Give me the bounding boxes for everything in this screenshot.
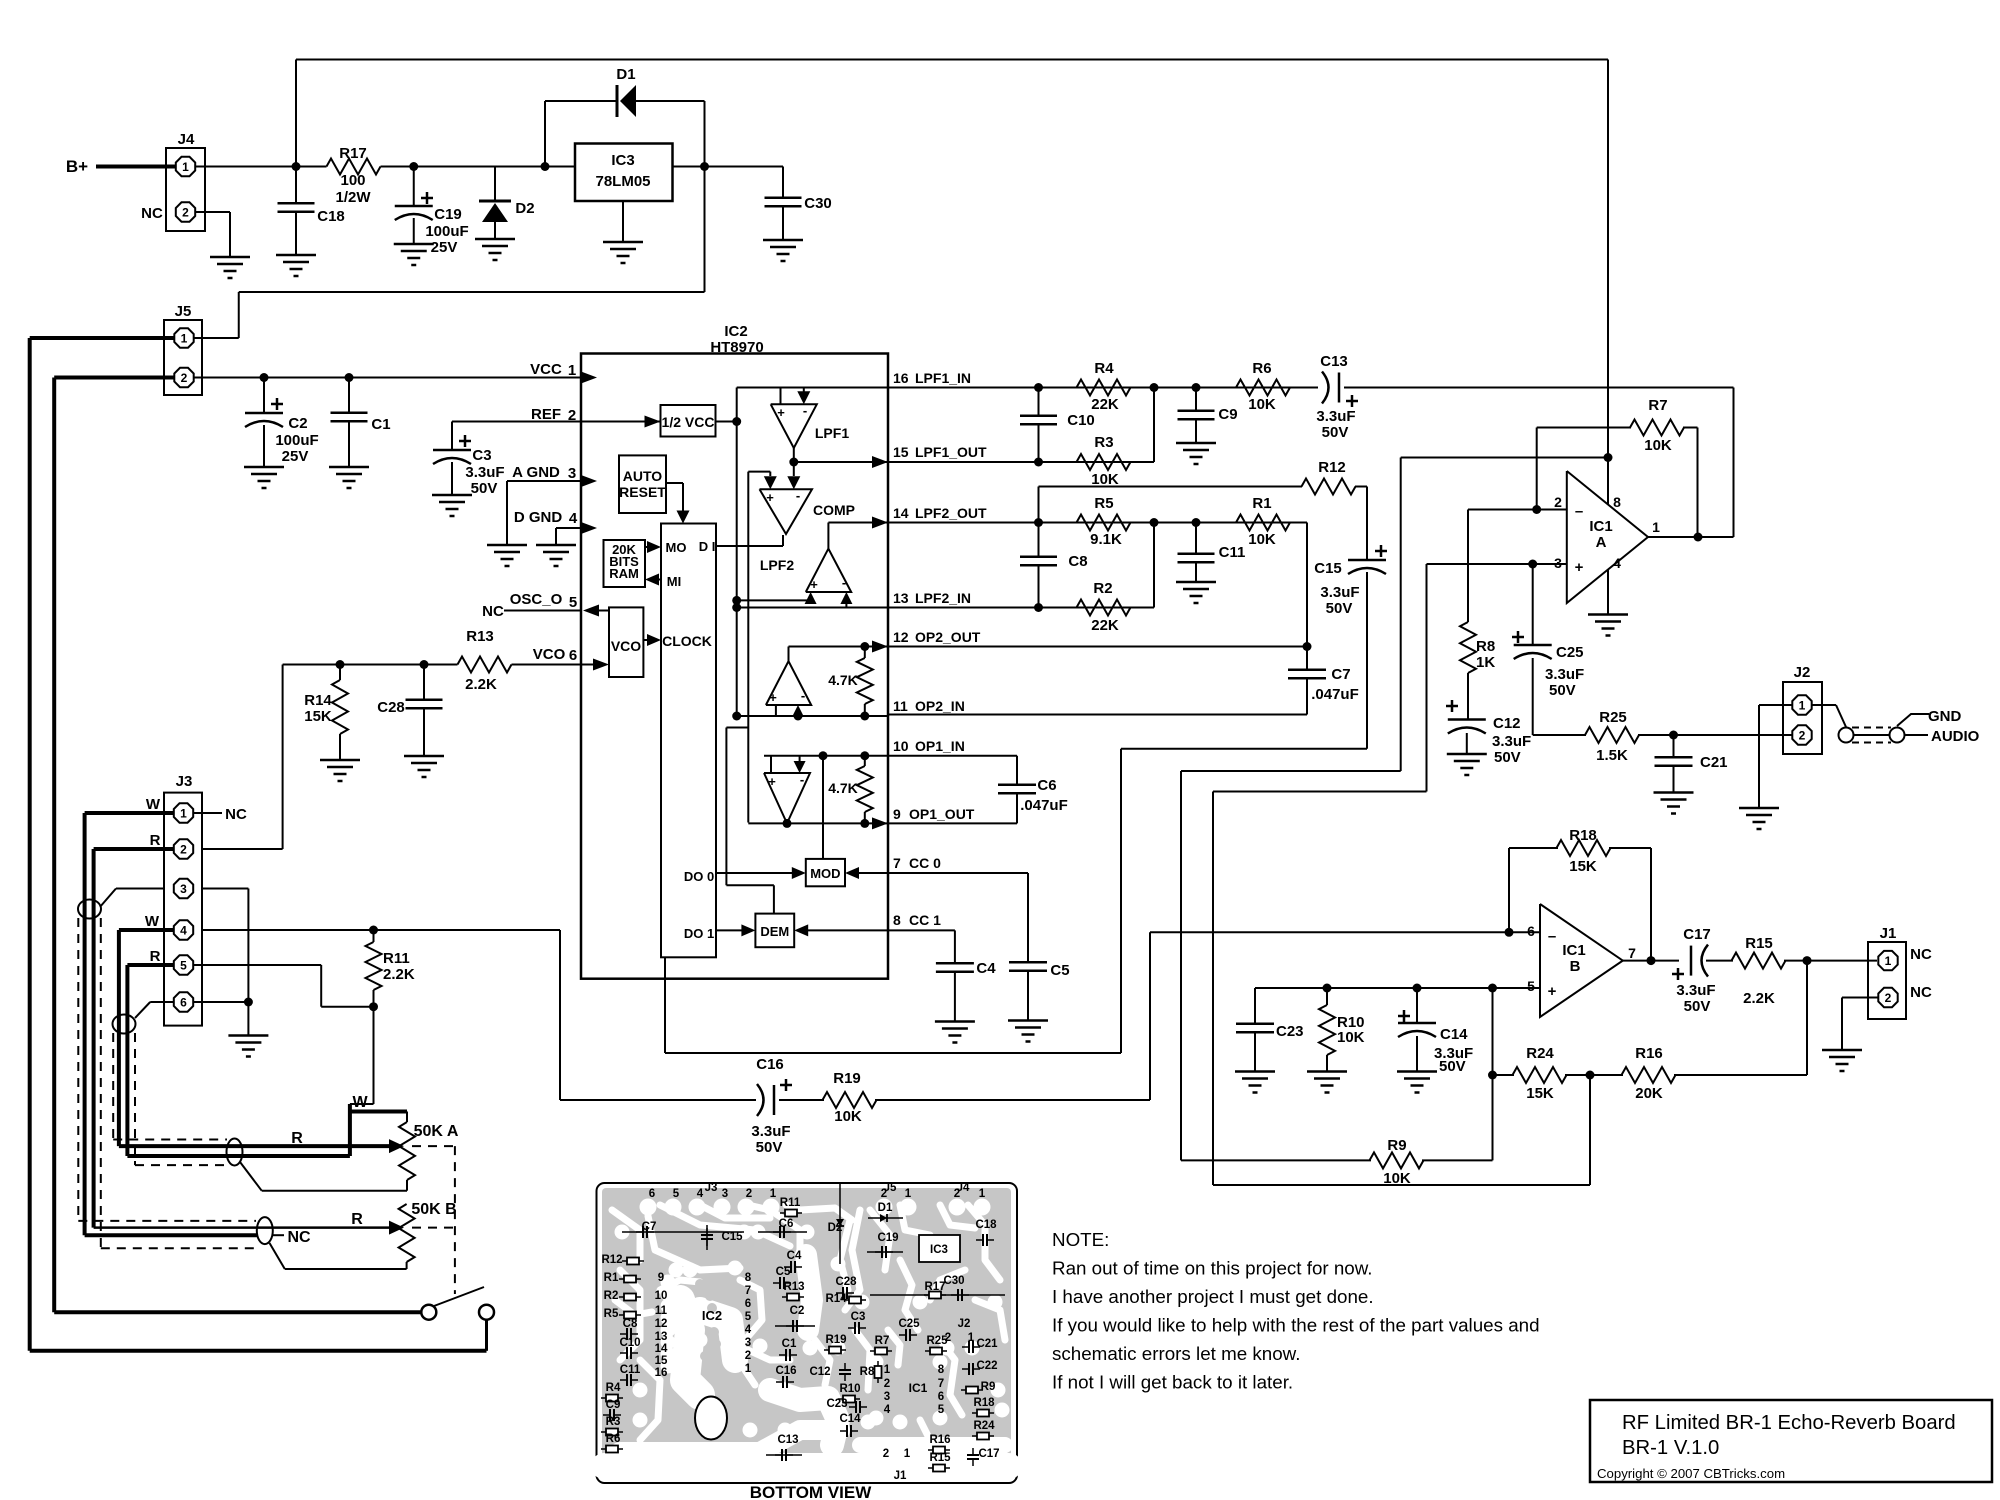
svg-text:LPF2_OUT: LPF2_OUT <box>915 505 987 521</box>
svg-text:5: 5 <box>745 1311 752 1323</box>
svg-text:J2: J2 <box>958 1318 971 1330</box>
svg-text:7: 7 <box>893 855 901 871</box>
svg-text:1: 1 <box>745 1363 752 1375</box>
svg-text:If not I will get back to it l: If not I will get back to it later. <box>1052 1372 1293 1393</box>
svg-text:4: 4 <box>569 510 578 527</box>
svg-text:IC2: IC2 <box>702 1308 722 1323</box>
svg-text:1: 1 <box>1652 519 1660 535</box>
svg-text:R1: R1 <box>1252 495 1271 512</box>
svg-text:MO: MO <box>666 540 687 555</box>
svg-text:C22: C22 <box>976 1360 997 1372</box>
svg-text:Copyright © 2007 CBTricks.com: Copyright © 2007 CBTricks.com <box>1597 1466 1785 1481</box>
svg-text:COMP: COMP <box>813 502 855 518</box>
svg-text:8: 8 <box>1613 494 1621 510</box>
svg-text:C17: C17 <box>1683 926 1711 943</box>
svg-text:22K: 22K <box>1091 396 1119 413</box>
svg-text:R: R <box>150 832 161 849</box>
svg-text:C3: C3 <box>472 447 491 464</box>
svg-text:C13: C13 <box>777 1434 798 1446</box>
svg-text:+: + <box>766 490 774 505</box>
svg-text:OP1_IN: OP1_IN <box>915 738 965 754</box>
svg-text:-: - <box>800 772 804 787</box>
svg-text:R7: R7 <box>875 1335 890 1347</box>
svg-text:R4: R4 <box>1094 360 1114 377</box>
svg-text:4: 4 <box>697 1188 704 1200</box>
svg-text:10K: 10K <box>1383 1170 1411 1187</box>
svg-text:R13: R13 <box>783 1281 804 1293</box>
svg-text:1/2 VCC: 1/2 VCC <box>662 414 715 430</box>
svg-text:3: 3 <box>180 882 187 896</box>
svg-text:2: 2 <box>181 371 188 385</box>
svg-text:3: 3 <box>568 465 576 482</box>
svg-text:If you would like to help with: If you would like to help with the rest … <box>1052 1315 1540 1336</box>
svg-text:R11: R11 <box>383 950 410 967</box>
svg-text:2: 2 <box>180 843 187 857</box>
svg-text:DO 1: DO 1 <box>684 926 714 941</box>
svg-text:DO 0: DO 0 <box>684 869 714 884</box>
svg-text:C14: C14 <box>1440 1026 1468 1043</box>
svg-text:IC1: IC1 <box>909 1381 928 1395</box>
svg-text:R6: R6 <box>606 1433 621 1445</box>
svg-text:1: 1 <box>904 1448 911 1460</box>
svg-text:VCO: VCO <box>533 646 566 663</box>
svg-text:2.2K: 2.2K <box>1743 990 1775 1007</box>
svg-text:schematic errors let me know.: schematic errors let me know. <box>1052 1343 1300 1364</box>
svg-text:-: - <box>801 688 805 703</box>
svg-text:C23: C23 <box>1276 1023 1304 1040</box>
svg-text:C28: C28 <box>377 699 405 716</box>
svg-text:LPF1_OUT: LPF1_OUT <box>915 444 987 460</box>
svg-text:+: + <box>1548 983 1557 1000</box>
svg-text:20K: 20K <box>1635 1085 1663 1102</box>
svg-text:+: + <box>769 690 777 705</box>
svg-text:C1: C1 <box>782 1338 797 1350</box>
svg-text:1: 1 <box>979 1188 986 1200</box>
svg-text:50V: 50V <box>1326 600 1353 617</box>
svg-text:14: 14 <box>893 505 909 521</box>
svg-text:3: 3 <box>745 1337 751 1349</box>
svg-text:50V: 50V <box>1322 424 1349 441</box>
svg-text:11: 11 <box>655 1305 668 1317</box>
svg-text:5: 5 <box>1527 978 1535 994</box>
svg-text:3.3uF: 3.3uF <box>1676 982 1715 999</box>
svg-text:25V: 25V <box>431 239 458 256</box>
svg-text:7: 7 <box>1628 945 1636 961</box>
svg-text:C2: C2 <box>288 415 307 432</box>
svg-text:C5: C5 <box>1050 962 1069 979</box>
svg-text:5: 5 <box>569 594 577 611</box>
svg-text:3.3uF: 3.3uF <box>1320 584 1359 601</box>
svg-text:GND: GND <box>1928 708 1962 725</box>
svg-text:C14: C14 <box>839 1413 861 1425</box>
svg-text:6: 6 <box>649 1188 655 1200</box>
svg-text:CLOCK: CLOCK <box>662 633 712 649</box>
svg-text:C8: C8 <box>1068 553 1087 570</box>
svg-text:+: + <box>810 577 818 592</box>
svg-text:3: 3 <box>722 1188 728 1200</box>
svg-text:R8: R8 <box>1476 638 1495 655</box>
svg-text:13: 13 <box>893 590 909 606</box>
svg-text:NC: NC <box>1910 946 1932 963</box>
svg-text:R7: R7 <box>1648 397 1667 414</box>
svg-text:R2: R2 <box>604 1290 619 1302</box>
svg-text:9: 9 <box>893 806 901 822</box>
svg-text:2: 2 <box>954 1188 960 1200</box>
svg-text:I have another project I must: I have another project I must get done. <box>1052 1286 1374 1307</box>
svg-text:CC 0: CC 0 <box>909 855 941 871</box>
svg-text:R4: R4 <box>606 1382 621 1394</box>
svg-text:13: 13 <box>655 1331 668 1343</box>
svg-text:2: 2 <box>883 1448 889 1460</box>
svg-text:C11: C11 <box>1219 544 1246 561</box>
svg-text:R9: R9 <box>981 1381 996 1393</box>
svg-text:NC: NC <box>141 205 163 222</box>
svg-text:4: 4 <box>1613 555 1621 571</box>
svg-text:8: 8 <box>745 1272 752 1284</box>
svg-text:C21: C21 <box>1700 754 1728 771</box>
svg-text:MOD: MOD <box>810 866 840 881</box>
svg-text:R12: R12 <box>601 1254 622 1266</box>
svg-text:NOTE:: NOTE: <box>1052 1229 1109 1250</box>
svg-text:2: 2 <box>884 1378 890 1390</box>
svg-text:IC1: IC1 <box>1562 942 1585 959</box>
svg-text:9.1K: 9.1K <box>1090 531 1122 548</box>
svg-text:100: 100 <box>340 172 365 189</box>
svg-text:J3: J3 <box>176 773 193 790</box>
svg-text:C18: C18 <box>317 208 345 225</box>
svg-text:C15: C15 <box>1314 560 1342 577</box>
svg-text:4: 4 <box>884 1404 891 1416</box>
svg-text:LPF2: LPF2 <box>760 557 794 573</box>
svg-text:50V: 50V <box>1549 682 1576 699</box>
svg-text:BOTTOM VIEW: BOTTOM VIEW <box>750 1483 872 1500</box>
svg-text:A GND: A GND <box>512 464 560 481</box>
svg-text:C5: C5 <box>776 1266 791 1278</box>
svg-text:C25: C25 <box>898 1318 920 1330</box>
svg-text:D GND: D GND <box>514 509 563 526</box>
svg-text:10K: 10K <box>834 1108 862 1125</box>
svg-text:1/2W: 1/2W <box>335 189 371 206</box>
svg-text:R17: R17 <box>339 145 367 162</box>
svg-text:1: 1 <box>884 1364 891 1376</box>
svg-text:12: 12 <box>893 629 909 645</box>
svg-text:+: + <box>768 774 776 789</box>
svg-text:RF Limited BR-1 Echo-Reverb B: RF Limited BR-1 Echo-Reverb Board <box>1622 1412 1956 1434</box>
svg-text:IC3: IC3 <box>611 152 634 169</box>
svg-text:C23: C23 <box>826 1398 847 1410</box>
svg-text:NC: NC <box>1910 984 1932 1001</box>
svg-text:C16: C16 <box>756 1056 784 1073</box>
svg-text:5: 5 <box>673 1188 680 1200</box>
svg-text:R16: R16 <box>929 1434 950 1446</box>
svg-text:NC: NC <box>225 806 247 823</box>
svg-text:10: 10 <box>655 1290 668 1302</box>
svg-text:R19: R19 <box>825 1334 846 1346</box>
svg-text:10K: 10K <box>1337 1029 1365 1046</box>
svg-text:10K: 10K <box>1091 471 1119 488</box>
svg-text:C1: C1 <box>371 416 390 433</box>
svg-text:1: 1 <box>1799 699 1806 713</box>
svg-text:CC 1: CC 1 <box>909 912 941 928</box>
svg-text:6: 6 <box>745 1298 751 1310</box>
svg-text:C3: C3 <box>851 1311 866 1323</box>
svg-text:C2: C2 <box>790 1305 805 1317</box>
svg-text:2: 2 <box>568 407 576 424</box>
svg-text:4: 4 <box>180 924 187 938</box>
svg-text:AUTO: AUTO <box>623 468 663 484</box>
svg-text:C7: C7 <box>1331 666 1350 683</box>
svg-text:2: 2 <box>182 206 189 220</box>
svg-text:2: 2 <box>746 1188 752 1200</box>
svg-text:25V: 25V <box>282 448 309 465</box>
svg-text:1: 1 <box>905 1188 912 1200</box>
svg-text:15K: 15K <box>1569 858 1597 875</box>
svg-text:4: 4 <box>745 1324 752 1336</box>
svg-text:VCO: VCO <box>611 638 641 654</box>
svg-text:16: 16 <box>893 370 909 386</box>
svg-text:16: 16 <box>655 1367 668 1379</box>
svg-text:2: 2 <box>881 1188 887 1200</box>
svg-text:50V: 50V <box>1684 998 1711 1015</box>
svg-text:1K: 1K <box>1476 654 1495 671</box>
svg-text:R10: R10 <box>839 1383 860 1395</box>
svg-text:2: 2 <box>1554 494 1562 510</box>
svg-text:4.7K: 4.7K <box>828 672 858 688</box>
svg-text:B: B <box>1570 958 1581 975</box>
svg-text:OSC_O: OSC_O <box>510 591 563 608</box>
svg-text:C4: C4 <box>787 1250 802 1262</box>
svg-text:–: – <box>1548 928 1556 945</box>
svg-text:C16: C16 <box>775 1365 796 1377</box>
svg-text:6: 6 <box>569 647 577 664</box>
svg-text:REF: REF <box>531 406 561 423</box>
svg-text:C19: C19 <box>434 206 462 223</box>
svg-text:50V: 50V <box>471 480 498 497</box>
svg-text:D1: D1 <box>878 1202 893 1214</box>
svg-text:LPF1_IN: LPF1_IN <box>915 370 971 386</box>
svg-text:12: 12 <box>655 1318 668 1330</box>
svg-text:J3: J3 <box>705 1182 718 1194</box>
svg-text:NC: NC <box>287 1229 311 1246</box>
svg-text:1: 1 <box>182 160 189 174</box>
svg-text:10K: 10K <box>1644 437 1672 454</box>
svg-text:C30: C30 <box>943 1275 964 1287</box>
svg-text:10K: 10K <box>1248 531 1276 548</box>
svg-text:R2: R2 <box>1093 580 1112 597</box>
svg-text:C12: C12 <box>1493 715 1521 732</box>
svg-text:BR-1 V.1.0: BR-1 V.1.0 <box>1622 1437 1719 1459</box>
svg-text:–: – <box>1575 503 1583 520</box>
svg-text:2.2K: 2.2K <box>465 676 497 693</box>
svg-text:W: W <box>352 1094 368 1111</box>
svg-text:7: 7 <box>938 1378 944 1390</box>
svg-text:RESET: RESET <box>619 484 666 500</box>
svg-text:78LM05: 78LM05 <box>595 173 650 190</box>
svg-text:Ran out of time on this projec: Ran out of time on this project for now. <box>1052 1258 1373 1279</box>
svg-text:IC3: IC3 <box>930 1244 948 1256</box>
svg-text:3.3uF: 3.3uF <box>751 1123 790 1140</box>
svg-text:2: 2 <box>745 1350 751 1362</box>
svg-text:50K A: 50K A <box>414 1123 459 1140</box>
svg-text:5: 5 <box>938 1404 945 1416</box>
svg-text:C28: C28 <box>835 1276 857 1288</box>
svg-text:8: 8 <box>938 1364 945 1376</box>
svg-text:R3: R3 <box>606 1416 621 1428</box>
svg-text:R18: R18 <box>973 1397 995 1409</box>
svg-text:R19: R19 <box>833 1070 861 1087</box>
svg-text:100uF: 100uF <box>425 223 468 240</box>
svg-text:R6: R6 <box>1252 360 1271 377</box>
svg-text:4.7K: 4.7K <box>828 780 858 796</box>
svg-text:C15: C15 <box>721 1231 743 1243</box>
svg-text:J5: J5 <box>175 303 192 320</box>
svg-text:10: 10 <box>893 738 909 754</box>
svg-text:IC2: IC2 <box>724 323 747 340</box>
svg-text:11: 11 <box>893 698 908 714</box>
svg-text:5: 5 <box>180 959 187 973</box>
svg-text:C9: C9 <box>1218 406 1237 423</box>
svg-text:C12: C12 <box>809 1366 830 1378</box>
svg-text:D I: D I <box>699 539 716 554</box>
svg-text:J1: J1 <box>1880 925 1897 942</box>
svg-text:C18: C18 <box>975 1219 997 1231</box>
svg-text:LPF2_IN: LPF2_IN <box>915 590 971 606</box>
svg-text:50V: 50V <box>1439 1058 1466 1075</box>
svg-text:D1: D1 <box>616 66 635 83</box>
svg-text:1: 1 <box>1885 954 1892 968</box>
svg-text:9: 9 <box>658 1272 664 1284</box>
svg-text:C6: C6 <box>1037 777 1056 794</box>
svg-text:NC: NC <box>482 603 504 620</box>
svg-text:LPF1: LPF1 <box>815 425 849 441</box>
svg-text:3.3uF: 3.3uF <box>1492 733 1531 750</box>
svg-text:R5: R5 <box>604 1308 619 1320</box>
svg-text:C4: C4 <box>976 960 996 977</box>
svg-text:15: 15 <box>655 1355 668 1367</box>
svg-text:14: 14 <box>655 1343 668 1355</box>
svg-text:C21: C21 <box>976 1338 998 1350</box>
svg-text:50V: 50V <box>1494 749 1521 766</box>
svg-text:C10: C10 <box>1067 412 1095 429</box>
svg-text:R24: R24 <box>973 1420 995 1432</box>
svg-text:J4: J4 <box>178 131 195 148</box>
svg-text:-: - <box>842 575 846 590</box>
svg-text:6: 6 <box>1527 923 1535 939</box>
svg-text:1.5K: 1.5K <box>1596 747 1628 764</box>
svg-text:R13: R13 <box>466 628 494 645</box>
svg-text:W: W <box>146 796 161 813</box>
svg-text:2: 2 <box>1799 729 1806 743</box>
svg-text:R15: R15 <box>1745 935 1773 952</box>
svg-text:R: R <box>150 948 161 965</box>
svg-text:R14: R14 <box>304 692 332 709</box>
svg-text:R16: R16 <box>1635 1045 1663 1062</box>
svg-text:R12: R12 <box>1318 459 1346 476</box>
svg-text:1: 1 <box>181 332 188 346</box>
svg-text:R11: R11 <box>780 1197 801 1209</box>
svg-text:MI: MI <box>667 574 681 589</box>
svg-text:100uF: 100uF <box>275 432 318 449</box>
svg-text:R8: R8 <box>860 1366 875 1378</box>
svg-text:R24: R24 <box>1526 1045 1554 1062</box>
svg-text:10K: 10K <box>1248 396 1276 413</box>
svg-text:C25: C25 <box>1556 644 1584 661</box>
svg-text:-: - <box>803 403 807 418</box>
svg-text:RAM: RAM <box>609 566 639 581</box>
svg-text:C13: C13 <box>1320 353 1348 370</box>
svg-text:C19: C19 <box>877 1232 898 1244</box>
svg-text:3.3uF: 3.3uF <box>465 464 504 481</box>
svg-text:3.3uF: 3.3uF <box>1316 408 1355 425</box>
svg-text:J2: J2 <box>1794 664 1811 681</box>
svg-text:OP1_OUT: OP1_OUT <box>909 806 975 822</box>
svg-text:B+: B+ <box>66 157 88 176</box>
svg-text:R3: R3 <box>1094 434 1113 451</box>
svg-text:15: 15 <box>893 444 909 460</box>
svg-text:3.3uF: 3.3uF <box>1545 666 1584 683</box>
svg-text:6: 6 <box>938 1391 944 1403</box>
svg-text:50K B: 50K B <box>411 1201 456 1218</box>
svg-text:2.2K: 2.2K <box>383 966 415 983</box>
svg-text:.047uF: .047uF <box>1311 686 1359 703</box>
svg-text:IC1: IC1 <box>1589 518 1612 535</box>
svg-text:R15: R15 <box>929 1452 951 1464</box>
svg-text:.047uF: .047uF <box>1020 797 1068 814</box>
svg-text:R: R <box>351 1211 363 1228</box>
svg-text:R18: R18 <box>1569 827 1597 844</box>
svg-text:R25: R25 <box>1599 709 1627 726</box>
svg-text:50V: 50V <box>756 1139 783 1156</box>
svg-text:OP2_IN: OP2_IN <box>915 698 965 714</box>
svg-text:6: 6 <box>180 996 187 1010</box>
svg-text:R1: R1 <box>604 1272 619 1284</box>
svg-text:8: 8 <box>893 912 901 928</box>
svg-text:2: 2 <box>1885 991 1892 1005</box>
svg-text:+: + <box>777 405 785 420</box>
svg-text:W: W <box>145 913 160 930</box>
svg-text:A: A <box>1596 534 1607 551</box>
svg-text:R9: R9 <box>1387 1137 1406 1154</box>
svg-text:R5: R5 <box>1094 495 1113 512</box>
svg-text:-: - <box>796 488 800 503</box>
svg-text:OP2_OUT: OP2_OUT <box>915 629 981 645</box>
svg-text:C30: C30 <box>804 195 832 212</box>
svg-text:1: 1 <box>568 362 576 379</box>
svg-text:AUDIO: AUDIO <box>1931 728 1980 745</box>
svg-text:7: 7 <box>745 1285 751 1297</box>
svg-text:1: 1 <box>180 807 187 821</box>
svg-text:DEM: DEM <box>760 924 789 939</box>
svg-text:J1: J1 <box>894 1470 907 1482</box>
svg-text:HT8970: HT8970 <box>710 339 763 356</box>
svg-text:22K: 22K <box>1091 617 1119 634</box>
svg-text:2: 2 <box>945 1332 951 1344</box>
svg-text:3: 3 <box>884 1391 890 1403</box>
svg-text:D2: D2 <box>515 200 534 217</box>
svg-text:R14: R14 <box>825 1293 847 1305</box>
svg-text:1: 1 <box>770 1188 777 1200</box>
svg-text:15K: 15K <box>304 708 332 725</box>
svg-text:+: + <box>1575 559 1584 576</box>
svg-text:VCC: VCC <box>530 361 562 378</box>
svg-text:C17: C17 <box>978 1448 999 1460</box>
svg-text:15K: 15K <box>1526 1085 1554 1102</box>
